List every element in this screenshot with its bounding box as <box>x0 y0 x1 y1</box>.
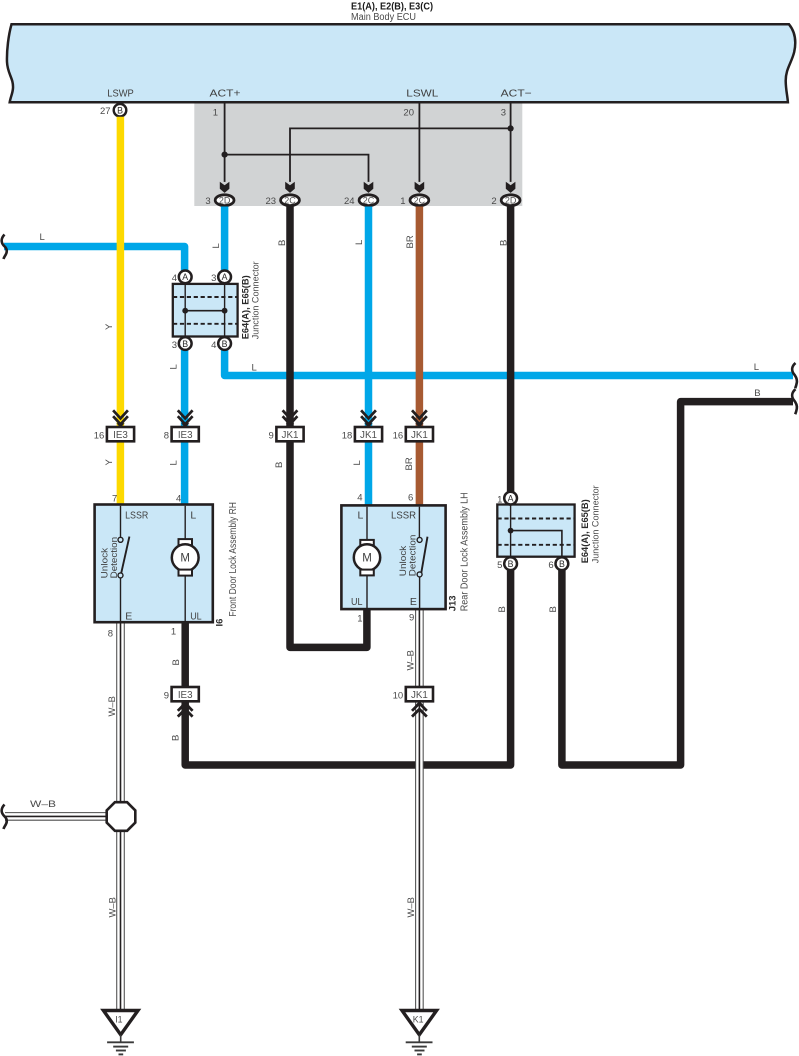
I6 motor M <box>184 506 186 539</box>
svg-text:W–B: W–B <box>30 799 56 810</box>
wire ACT+ pin1 to 2D <box>224 103 226 182</box>
svg-text:Detection: Detection <box>408 535 419 577</box>
svg-text:4: 4 <box>357 493 362 504</box>
junction2 internal branch to B(6) <box>511 531 562 557</box>
wire BR brown from 1 2C down to J13 pin 6 <box>416 207 424 507</box>
junction2 terminal circle B(5) <box>504 557 517 570</box>
svg-text:E64(A), E65(B): E64(A), E65(B) <box>580 499 591 563</box>
svg-text:I1: I1 <box>115 1015 122 1025</box>
junction connector E64(A),E65(B) no.2 box <box>497 505 574 557</box>
svg-text:LSSR: LSSR <box>125 510 149 522</box>
svg-text:JK1: JK1 <box>411 430 428 441</box>
svg-text:8: 8 <box>164 431 169 442</box>
break symbol left cyan <box>2 235 7 260</box>
svg-text:B: B <box>274 462 285 468</box>
svg-text:1: 1 <box>357 614 362 625</box>
svg-text:Main Body ECU: Main Body ECU <box>351 12 416 23</box>
J13 unlock detection switch <box>418 507 420 538</box>
svg-text:BR: BR <box>404 457 415 470</box>
svg-text:L: L <box>169 364 180 369</box>
junction dot ACT- <box>508 125 514 131</box>
svg-text:L: L <box>252 363 257 374</box>
octagon junction on W-B wire <box>107 802 136 831</box>
ECU pin 27 connector circle B <box>114 104 127 117</box>
connector 18 JK1 (cyan wire) <box>342 410 382 441</box>
svg-text:IE3: IE3 <box>113 430 128 441</box>
svg-text:3: 3 <box>501 107 506 118</box>
svg-text:UL: UL <box>190 611 202 623</box>
svg-text:B: B <box>222 339 228 349</box>
svg-text:3: 3 <box>211 273 216 284</box>
svg-text:7: 7 <box>112 494 117 505</box>
svg-text:L: L <box>358 510 364 522</box>
svg-text:W–B: W–B <box>406 897 417 918</box>
svg-text:ACT−: ACT− <box>501 88 532 100</box>
connector 10 JK1 (W-B wire, arrows up) <box>393 687 433 717</box>
svg-text:A: A <box>182 272 188 282</box>
svg-text:4: 4 <box>172 273 177 284</box>
svg-text:4: 4 <box>211 340 216 351</box>
svg-text:B: B <box>508 559 514 569</box>
arrowhead into 3 2D <box>220 182 230 193</box>
svg-text:B: B <box>171 735 182 741</box>
svg-text:5: 5 <box>497 560 502 571</box>
connector 16 IE3 (yellow wire) <box>94 410 134 441</box>
ground K1 earth bars <box>418 1035 420 1042</box>
svg-text:W–B: W–B <box>406 650 417 671</box>
junction2 terminal circle A(1) <box>504 492 517 505</box>
wire L cyan from 3 2D down to junction A(3) <box>221 207 229 271</box>
svg-text:Front Door Lock Assembly RH: Front Door Lock Assembly RH <box>228 502 239 617</box>
break symbol right cyan <box>792 363 797 388</box>
svg-text:LSWL: LSWL <box>406 88 438 100</box>
svg-text:24: 24 <box>344 196 355 207</box>
wire L cyan from junction B(3) down to I6 pin 4 <box>181 350 189 506</box>
svg-text:2: 2 <box>491 196 496 207</box>
svg-text:1: 1 <box>171 627 176 638</box>
svg-text:E: E <box>125 611 132 623</box>
I6 unlock detection switch <box>120 506 122 537</box>
svg-text:B: B <box>548 606 559 612</box>
arrowhead into 1 2C <box>415 182 425 193</box>
wire W-B from J13 pin 9 E down to ground K1 <box>415 609 424 1011</box>
svg-text:A: A <box>508 493 514 503</box>
junction1 internal link with dots <box>185 310 224 312</box>
svg-text:9: 9 <box>269 431 274 442</box>
svg-text:L: L <box>754 362 759 373</box>
junction1 terminal circle A(3) <box>218 271 231 284</box>
ground I1 triangle <box>103 1011 138 1035</box>
svg-text:Y: Y <box>104 323 115 330</box>
svg-text:L: L <box>354 240 365 245</box>
arrowhead into 2 2D <box>506 182 516 193</box>
connector 16 JK1 (brown wire) <box>393 410 433 441</box>
svg-text:B: B <box>182 339 188 349</box>
wire B black from 23 2C down and right to J13 pin 1 UL <box>290 207 367 648</box>
svg-text:2C: 2C <box>363 196 375 206</box>
svg-text:18: 18 <box>342 431 353 442</box>
connector oval 23 2C <box>281 195 300 206</box>
junction2 terminal circle B(6) <box>556 557 569 570</box>
svg-text:IE3: IE3 <box>178 690 193 701</box>
svg-text:2D: 2D <box>505 196 517 206</box>
connector 8 IE3 (cyan wire) <box>164 410 199 441</box>
wire B black from 9 IE3 up to I6 pin 1 UL <box>181 622 189 689</box>
wire L cyan from junction B(4) to right edge <box>225 350 793 376</box>
svg-text:B: B <box>497 606 508 612</box>
svg-text:B: B <box>754 388 760 399</box>
svg-text:B: B <box>117 106 123 116</box>
svg-text:9: 9 <box>409 613 414 624</box>
connector oval 2 2D <box>501 195 520 206</box>
J13 Rear Door Lock Assembly LH box <box>341 505 445 609</box>
svg-text:4: 4 <box>176 494 181 505</box>
wire LSWL pin20 to 1 2C <box>418 103 420 182</box>
wire W-B horizontal from left edge to octagon junction <box>5 812 112 821</box>
svg-text:6: 6 <box>548 560 553 571</box>
svg-text:JK1: JK1 <box>282 430 299 441</box>
junction2 internal vertical line <box>510 505 512 557</box>
junction connector E64(A),E65(B) no.1 box <box>173 284 238 337</box>
ground I1 earth bars <box>120 1035 122 1042</box>
break symbol right black <box>792 389 797 414</box>
svg-text:2C: 2C <box>284 196 296 206</box>
Main Body ECU block <box>7 24 795 102</box>
wire L cyan horizontal from left edge to junction column <box>4 247 185 271</box>
junction1 dashed bus lines <box>173 297 238 324</box>
svg-text:Junction Connector: Junction Connector <box>251 261 262 339</box>
svg-text:16: 16 <box>94 431 105 442</box>
svg-text:Y: Y <box>104 459 115 466</box>
svg-text:23: 23 <box>266 196 277 207</box>
svg-text:W–B: W–B <box>107 696 118 717</box>
J13 motor M <box>366 507 368 540</box>
wire Y yellow from ECU pin 27 down to I6 pin 7 <box>117 117 125 506</box>
svg-text:W–B: W–B <box>107 897 118 918</box>
svg-text:I6: I6 <box>215 619 226 627</box>
svg-text:10: 10 <box>393 691 404 702</box>
svg-text:JK1: JK1 <box>411 690 428 701</box>
svg-text:1: 1 <box>213 107 218 118</box>
junction1 terminal circle B(4) <box>218 337 231 350</box>
connector oval 1 2C <box>410 195 429 206</box>
svg-text:B: B <box>171 659 182 665</box>
connector 9 IE3 (black wire, arrows up) <box>164 687 199 717</box>
svg-text:E: E <box>410 596 417 608</box>
wire ACT- pin3 to 2 2D <box>510 103 512 182</box>
arrowhead into 24 2C <box>364 182 374 193</box>
junction1 terminal circle A(4) <box>179 271 192 284</box>
I6 Front Door Lock Assembly RH box <box>95 505 213 623</box>
junction1 internal vertical lines <box>185 284 224 336</box>
svg-text:ACT+: ACT+ <box>210 88 241 100</box>
connector 9 JK1 (black wire) <box>269 410 304 441</box>
wire B black from 2 2D down to junction2 A(1) <box>507 207 515 493</box>
connector oval 24 2C <box>359 195 378 206</box>
svg-text:9: 9 <box>164 691 169 702</box>
wire B black branch from junction2 B(6) down right and up to right edge <box>562 402 793 765</box>
svg-text:LSWP: LSWP <box>107 88 134 100</box>
junction1 terminal circle B(3) <box>179 337 192 350</box>
wire W-B from I6 pin 8 E down to ground I1 <box>116 622 125 1011</box>
ECU internal harness shade <box>194 103 522 206</box>
svg-text:1: 1 <box>400 196 405 207</box>
svg-text:IE3: IE3 <box>178 430 193 441</box>
svg-text:A: A <box>222 272 228 282</box>
svg-text:2C: 2C <box>414 196 426 206</box>
arrowhead into 23 2C <box>285 182 295 193</box>
svg-text:LSSR: LSSR <box>391 510 416 522</box>
svg-text:B: B <box>559 559 565 569</box>
svg-text:M: M <box>180 553 190 565</box>
svg-text:Rear Door Lock Assembly LH: Rear Door Lock Assembly LH <box>460 492 471 611</box>
wire branch ACT+ to 24 2C <box>225 155 369 182</box>
svg-text:L: L <box>190 510 196 522</box>
svg-text:M: M <box>362 553 372 565</box>
svg-text:27: 27 <box>100 106 111 117</box>
svg-text:K1: K1 <box>413 1015 424 1025</box>
wire L cyan from 24 2C down to J13 pin 4 <box>365 207 373 507</box>
svg-text:6: 6 <box>408 493 413 504</box>
ground K1 triangle <box>402 1011 437 1035</box>
break symbol left W-B <box>2 805 7 830</box>
svg-text:B: B <box>277 240 288 246</box>
svg-text:UL: UL <box>351 596 363 608</box>
wire branch ACT- to 23 2C <box>290 128 511 182</box>
svg-text:3: 3 <box>205 196 210 207</box>
connector oval 3 2D <box>215 195 234 206</box>
svg-text:BR: BR <box>405 235 416 248</box>
svg-text:2D: 2D <box>219 196 231 206</box>
junction dot ACT+ <box>222 152 228 158</box>
junction2 dashed bus lines <box>498 519 575 545</box>
svg-text:JK1: JK1 <box>360 430 377 441</box>
svg-text:L: L <box>40 232 45 243</box>
svg-text:L: L <box>352 460 363 465</box>
svg-text:B: B <box>498 240 509 246</box>
svg-text:J13: J13 <box>447 595 458 611</box>
svg-text:20: 20 <box>403 107 414 118</box>
wire B black from junction2 B(5) down, left, up to 9 IE3 <box>185 570 510 765</box>
svg-text:Junction Connector: Junction Connector <box>590 485 601 563</box>
svg-text:L: L <box>169 460 180 465</box>
svg-text:L: L <box>211 243 222 248</box>
svg-text:Detection: Detection <box>109 537 120 579</box>
svg-text:8: 8 <box>108 628 113 639</box>
svg-text:1: 1 <box>497 494 502 505</box>
svg-text:16: 16 <box>393 431 404 442</box>
svg-text:3: 3 <box>172 340 177 351</box>
